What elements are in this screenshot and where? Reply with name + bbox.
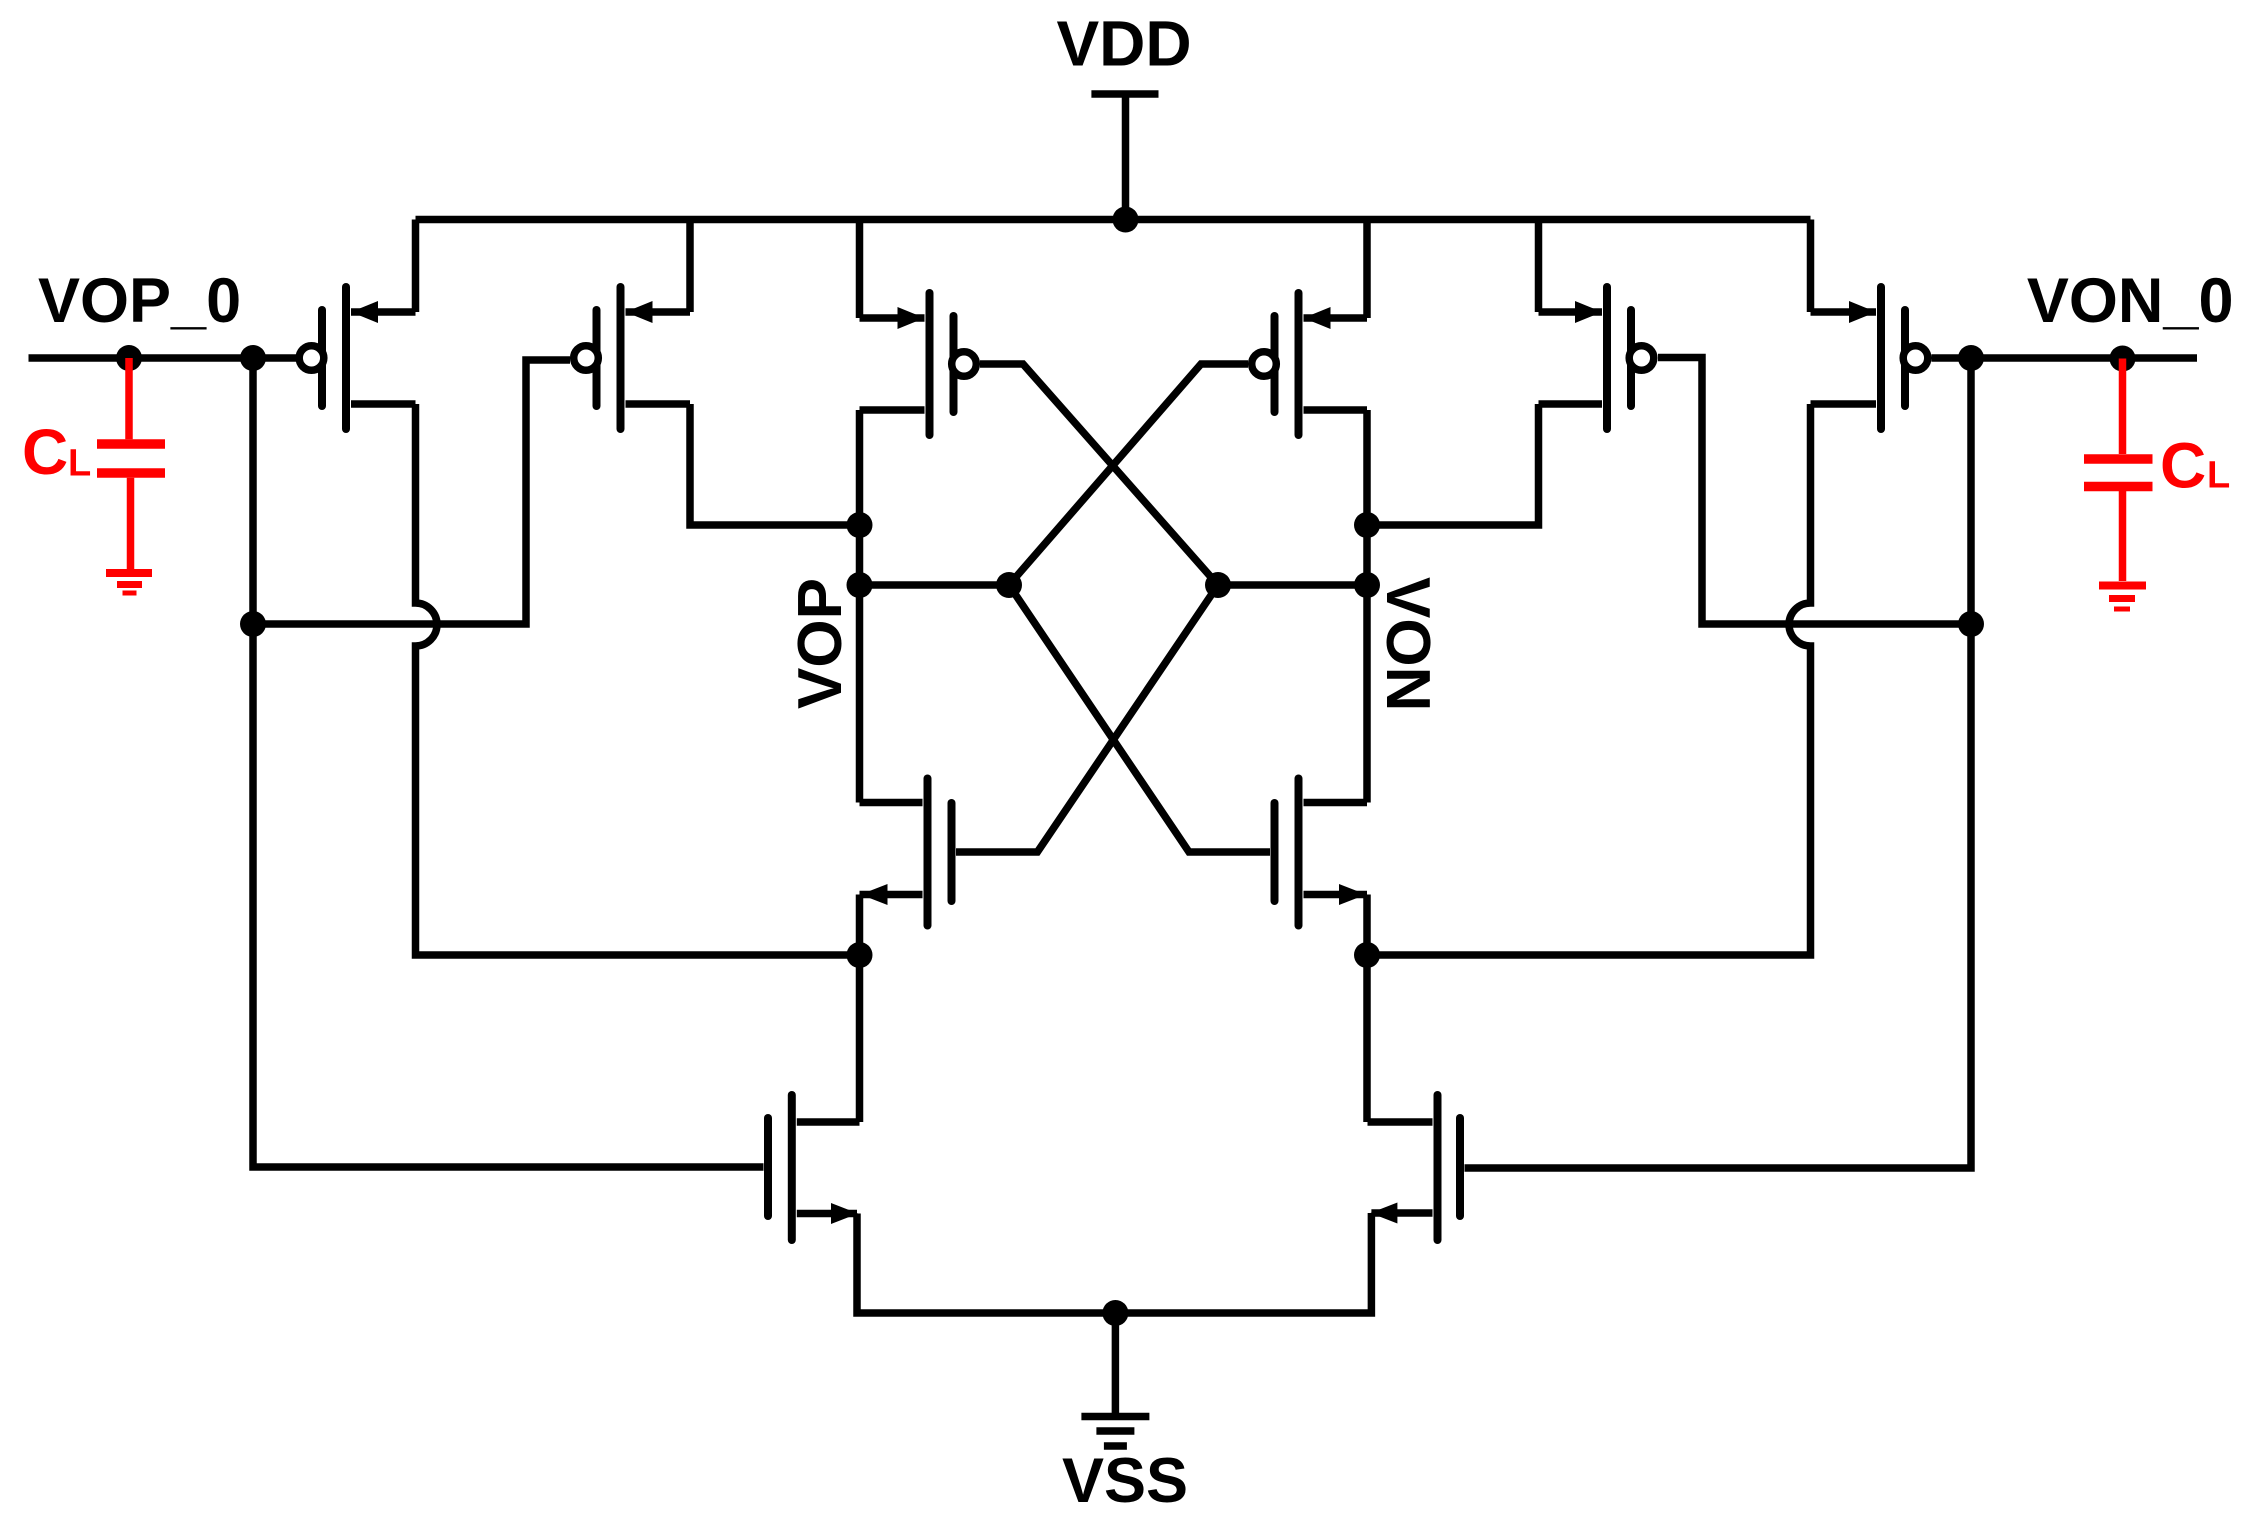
node VDD junction dot — [1113, 207, 1139, 233]
C_L label right — [2160, 429, 2230, 501]
VDD label — [1056, 8, 1191, 80]
C_L label left — [22, 416, 91, 488]
node dot M2/M3 drain junction — [847, 512, 873, 538]
capacitor C_L left — [97, 358, 165, 569]
svg-text:VSS: VSS — [1062, 1446, 1188, 1516]
VOP label — [786, 578, 855, 709]
node VOP diamond left dot — [996, 572, 1022, 598]
node VON_0 branch dot — [1958, 345, 1984, 371]
svg-text:C: C — [22, 416, 68, 488]
wire VON_0 branch down to M10 gate — [1465, 358, 1972, 1168]
wire M7 source down to M9 drain — [856, 895, 864, 1123]
wire gate feed to M5 — [1658, 358, 1971, 625]
wire M6 source to VDD rail — [1807, 220, 1815, 313]
ground symbol left C_L — [106, 573, 152, 593]
wire gate feed to M2 — [253, 360, 570, 624]
node VSS dot — [1102, 1300, 1128, 1326]
wire M2 source to VDD rail — [686, 220, 694, 313]
node VON dot — [1354, 572, 1380, 598]
transistor M8 NMOS (mid right) — [1275, 779, 1368, 926]
transistor M2 PMOS — [574, 287, 690, 429]
transistor M9 NMOS (bottom left) — [768, 1095, 860, 1240]
node dot M4/M5 drain junction — [1354, 512, 1380, 538]
svg-text:L: L — [68, 443, 91, 485]
node VOP_0 branch dot — [240, 345, 266, 371]
transistor M6 PMOS (VON_0 output) — [1811, 287, 1928, 429]
wire VON node cross-coupled to M7 gate — [956, 585, 1218, 852]
node dot on right branch at gate-feed junction — [1958, 611, 1984, 637]
node VOP dot — [847, 572, 873, 598]
ground symbol VSS — [1081, 1417, 1149, 1447]
node dot on left branch at gate-feed junction — [240, 611, 266, 637]
node left tail dot — [847, 942, 873, 968]
wire M5 source to VDD rail — [1535, 220, 1543, 313]
wire VOP_0 net — [29, 354, 297, 362]
wire VOP node cross-coupled to M8 gate — [1009, 585, 1270, 852]
wire VOP_0 branch down to M9 gate — [253, 358, 764, 1167]
svg-text:L: L — [2207, 454, 2230, 496]
transistor M7 NMOS (mid left) — [860, 779, 952, 926]
svg-text:VOP_0: VOP_0 — [38, 266, 241, 336]
wire VDD rail — [416, 216, 1811, 224]
VSS label — [1062, 1446, 1188, 1516]
capacitor C_L right — [2084, 359, 2153, 582]
svg-text:VDD: VDD — [1056, 8, 1191, 80]
wire M3 drain column down to M7 drain — [856, 410, 864, 803]
node VON diamond right dot — [1205, 572, 1231, 598]
VDD power symbol — [1091, 94, 1158, 220]
wire VSS tail bus — [857, 1213, 1371, 1313]
node VON_0 capacitor tap dot — [2110, 346, 2136, 372]
wire M3 gate cross-coupled to VON node — [980, 364, 1218, 585]
transistor M3 PMOS (cross-coupled left) — [860, 293, 977, 435]
VON_0 label — [2027, 266, 2234, 336]
ground symbol right C_L — [2099, 586, 2146, 610]
transistor M4 PMOS (cross-coupled right) — [1252, 293, 1367, 435]
wire M8 source down to M10 drain — [1363, 895, 1371, 1123]
wire M1 drain to left tail node (hops over gate feed) — [416, 404, 861, 955]
VON label — [1373, 577, 1442, 711]
wire M4 drain column down to M8 drain — [1363, 410, 1371, 803]
wire M3 source to VDD rail — [856, 220, 864, 319]
svg-text:VON_0: VON_0 — [2027, 266, 2234, 336]
transistor M10 NMOS (bottom right) — [1368, 1095, 1461, 1240]
wire VON_0 net — [1932, 354, 2198, 362]
svg-text:VON: VON — [1373, 577, 1442, 711]
VOP_0 label — [38, 266, 241, 336]
svg-text:C: C — [2160, 429, 2206, 501]
wire M5 drain to VON column — [1367, 404, 1539, 525]
wire M1 source to VDD rail — [412, 220, 420, 313]
node VOP_0 capacitor tap dot — [116, 345, 142, 371]
transistor M1 PMOS (VOP_0 output) — [299, 287, 415, 429]
wire M6 drain to right tail node (hops over gate feed) — [1367, 404, 1811, 955]
wire VSS stem — [1112, 1313, 1120, 1418]
wire M4 gate cross-coupled to VOP node — [1009, 364, 1248, 585]
wire M2 drain to VOP column — [690, 404, 860, 525]
node right tail dot — [1354, 942, 1380, 968]
wire VON rail — [1218, 581, 1367, 589]
svg-text:VOP: VOP — [786, 578, 855, 709]
transistor M5 PMOS — [1539, 287, 1654, 429]
wire M4 source to VDD rail — [1363, 220, 1371, 319]
wire VOP rail — [860, 581, 1010, 589]
